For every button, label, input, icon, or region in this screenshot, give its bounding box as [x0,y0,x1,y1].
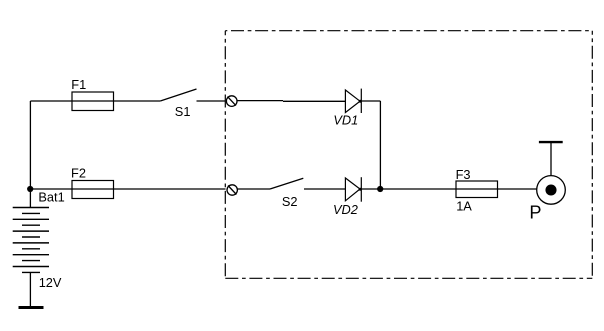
svg-text:1A: 1A [456,199,472,214]
svg-text:S2: S2 [282,194,298,209]
svg-text:F2: F2 [71,166,86,181]
svg-text:Bat1: Bat1 [38,189,64,204]
svg-text:VD1: VD1 [333,113,358,128]
svg-text:S1: S1 [175,104,191,119]
svg-text:F3: F3 [456,167,471,182]
svg-text:VD2: VD2 [333,202,358,217]
svg-text:F1: F1 [71,77,86,92]
svg-text:P: P [529,202,541,222]
svg-text:12V: 12V [39,275,62,290]
